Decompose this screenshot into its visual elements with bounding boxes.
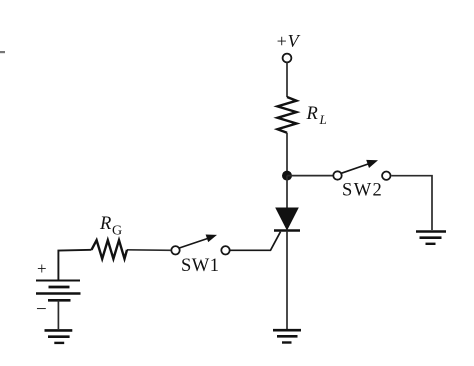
wire +V to RL (286, 63, 288, 98)
switch SW1 left contact (171, 246, 179, 254)
SCR U1 cathode bar (274, 229, 300, 232)
wire SW1 to RG (127, 249, 171, 252)
svg-text:R: R (306, 104, 318, 124)
svg-text:R: R (99, 214, 111, 234)
wire node to SW2 (287, 175, 333, 177)
ground right (416, 232, 446, 244)
SCR U1 anode wire (286, 176, 288, 209)
switch SW2 arrowhead (366, 160, 378, 168)
scan artifact dash left edge (0, 51, 5, 53)
switch SW1 arm (179, 238, 209, 248)
resistor RG (92, 240, 128, 259)
wire SW2 to right corner (391, 176, 432, 230)
battery BT1 plates (36, 281, 81, 301)
ground center (273, 330, 301, 342)
wire RG to battery (58, 250, 91, 280)
switch SW2 right contact (382, 172, 390, 180)
svg-text:L: L (319, 112, 327, 127)
switch SW2 left contact (333, 171, 341, 179)
ground left (45, 330, 73, 343)
node junction dot (282, 171, 292, 181)
wire RL to node (286, 133, 288, 176)
svg-text:−: − (36, 299, 47, 320)
svg-text:+V: +V (276, 31, 301, 51)
wire cathode to ground (286, 231, 288, 330)
switch SW1 arrowhead (206, 235, 217, 243)
svg-text:+: + (37, 259, 47, 278)
switch SW1 right contact (221, 246, 229, 254)
SCR U1 triangle (276, 208, 298, 230)
svg-text:G: G (112, 224, 122, 239)
svg-text:SW2: SW2 (342, 181, 383, 201)
SCR U1 gate lead (230, 232, 281, 251)
svg-text:SW1: SW1 (181, 256, 220, 276)
resistor RL (278, 97, 297, 133)
terminal +V (283, 54, 292, 63)
wire battery to ground (57, 300, 59, 329)
switch SW2 arm (342, 163, 372, 173)
